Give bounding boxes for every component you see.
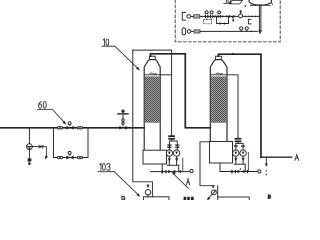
pump1 arrow [147, 185, 150, 189]
drop valve V1 [27, 128, 33, 165]
enclosure edge v2 [247, 152, 249, 170]
junction dots row1 [214, 15, 216, 17]
control valve [239, 10, 243, 18]
vessel1 top pipe [151, 54, 211, 128]
stub row1 [182, 12, 185, 20]
vessel2 bottom rect [210, 142, 233, 164]
glyph B left [122, 196, 125, 203]
drum tank [249, 0, 273, 5]
main feed pipe [0, 127, 144, 129]
wire [191, 30, 194, 32]
drop to port [178, 165, 180, 171]
flow arrows below v2 [234, 158, 237, 162]
stub row2 [182, 28, 186, 35]
drop v2 [244, 164, 246, 171]
vessel1 bottom rect [143, 150, 167, 164]
flanges loop bottom [57, 156, 82, 158]
port circle [190, 169, 193, 172]
gauge 2 [245, 27, 248, 32]
flange circle row1 [187, 15, 191, 19]
flow arrows below [168, 158, 171, 162]
pump1 tank rect [144, 197, 170, 202]
hook to B [265, 157, 267, 163]
label 70 [224, 0, 246, 7]
label 103 [98, 163, 140, 197]
junction [132, 127, 134, 129]
vessel1 bottle [144, 56, 160, 150]
label 60 [37, 101, 66, 124]
enclosure edge [182, 158, 184, 172]
vessel2 flange stack [235, 138, 242, 140]
line dots [244, 16, 246, 18]
check valves v2 [233, 150, 239, 156]
A leader v1 [172, 172, 190, 188]
inlet valve V3 [118, 110, 128, 130]
port circle v2 [258, 170, 261, 173]
vessel1 flange stack [168, 135, 175, 137]
label 10 [102, 39, 140, 71]
vessel1 level pipe [160, 74, 171, 76]
port valve v2 [231, 168, 248, 173]
flanges loop top [57, 127, 82, 129]
bypass loop row1 [217, 16, 229, 23]
valve loop top [66, 122, 73, 130]
pump2 [212, 190, 217, 195]
flange circle row2 [187, 30, 191, 34]
gauge 1 [240, 27, 243, 32]
vessel2 bottle [210, 56, 227, 141]
valve loop bottom [66, 151, 73, 159]
wire row2 long [200, 30, 257, 32]
label A right [295, 155, 299, 161]
drum drop pipe [259, 5, 261, 31]
pump2 pipe [217, 186, 219, 197]
branch flanges [167, 144, 179, 148]
vessel1 box right [171, 50, 173, 135]
header v2 [234, 163, 245, 165]
label B right [268, 195, 270, 199]
valve Vc [218, 11, 221, 18]
valve Vd drain [229, 15, 235, 22]
reducer row2 [194, 30, 200, 33]
vessel1 box left pipe [133, 50, 153, 197]
port line v2 [220, 171, 258, 173]
bypass loop [54, 128, 89, 158]
link wire [32, 146, 38, 148]
header [167, 164, 178, 166]
vessel1 manifold split [169, 141, 177, 149]
port connect v2 [219, 163, 221, 172]
pump1 [145, 190, 150, 195]
pump2 tank rect [218, 197, 250, 202]
branch flanges v2 [234, 145, 246, 146]
A outlet line [261, 156, 292, 158]
wire [191, 15, 194, 17]
vessel1 box top [133, 49, 172, 51]
cut text blobs [184, 197, 194, 200]
stub bracket right [248, 19, 251, 24]
junction dot [232, 53, 234, 55]
reducer row1 [194, 15, 200, 18]
port line [151, 171, 191, 173]
dashed instrument box [203, 20, 211, 24]
dot row2 [251, 31, 253, 33]
arrow down [258, 30, 262, 34]
dashed box border [175, 0, 280, 42]
valve Vb [210, 11, 214, 18]
port connect [161, 164, 163, 172]
port valve [162, 170, 181, 174]
valve loop [219, 22, 225, 25]
pump2 feed [200, 142, 213, 186]
vessel2 manifold split [236, 143, 243, 150]
vessel2 top pipe [218, 54, 261, 157]
valve Va [205, 11, 209, 18]
check valve circles [166, 150, 172, 156]
valve V2 [39, 145, 48, 160]
vessel2 level pipe [227, 75, 238, 138]
wire [200, 15, 260, 17]
